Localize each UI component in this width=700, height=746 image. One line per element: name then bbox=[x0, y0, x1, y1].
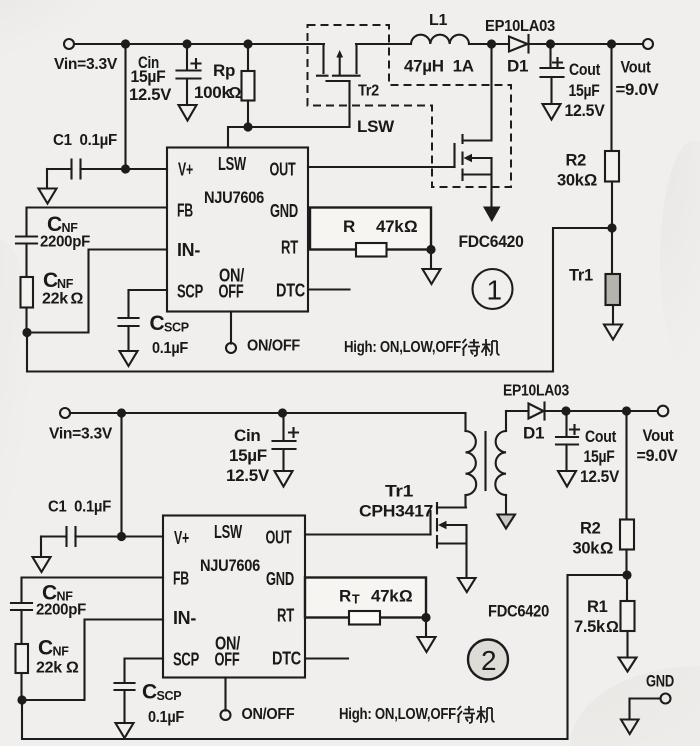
ground below Cin bbox=[179, 105, 197, 121]
svg-text:High: ON,LOW,OFF: High: ON,LOW,OFF bbox=[339, 706, 456, 723]
ground below C1 (bottom) bbox=[33, 557, 51, 572]
ground below R bbox=[423, 250, 441, 285]
svg-text:OUT: OUT bbox=[270, 160, 296, 180]
wire FB pin (bottom) bbox=[22, 578, 164, 603]
resistor Rp bbox=[242, 44, 255, 127]
svg-text:Ω: Ω bbox=[71, 291, 84, 308]
node R2 junction (bottom) bbox=[622, 406, 631, 415]
node junction Vin/V+ bbox=[121, 39, 130, 48]
svg-text:12.5V: 12.5V bbox=[565, 102, 605, 120]
svg-text:EP10LA03: EP10LA03 bbox=[503, 383, 569, 400]
svg-text:Tr1: Tr1 bbox=[569, 267, 593, 285]
ground below Tr1 bbox=[604, 325, 622, 340]
svg-text:ON/OFF: ON/OFF bbox=[242, 706, 295, 723]
svg-text:C: C bbox=[150, 312, 165, 335]
wire SCP pin bbox=[129, 290, 168, 318]
label CNF 2200pF (bottom) bbox=[36, 582, 86, 619]
svg-text:=9.0V: =9.0V bbox=[616, 81, 659, 99]
svg-text:15µF: 15µF bbox=[569, 82, 600, 100]
resistor R1 bbox=[621, 575, 635, 658]
wire ON/OFF pin bbox=[230, 312, 232, 344]
capacitor CNF 2200pF (bottom) bbox=[11, 603, 32, 610]
ground below CSCP bbox=[120, 351, 138, 366]
svg-text:0.1µF: 0.1µF bbox=[152, 340, 188, 357]
wire SCP pin (bottom) bbox=[125, 659, 164, 683]
transistor Tr1 CPH3417 bbox=[431, 503, 467, 578]
transistor Q Tr2 PMOS bbox=[317, 44, 360, 81]
svg-text:22k: 22k bbox=[42, 291, 68, 308]
svg-text:7.5k: 7.5k bbox=[574, 618, 606, 636]
label R1 value bbox=[574, 598, 619, 636]
label Cout value bbox=[565, 61, 605, 120]
svg-text:NJU7606: NJU7606 bbox=[204, 189, 264, 207]
node Cout junction (bottom) bbox=[561, 406, 570, 415]
label R2 (bottom) bbox=[573, 520, 614, 558]
node R2/R1 junction (bottom) bbox=[622, 570, 631, 579]
label CNF 2200pF bbox=[40, 213, 90, 251]
capacitor C1 (bottom) bbox=[41, 527, 163, 557]
svg-text:ON/OFF: ON/OFF bbox=[247, 338, 300, 355]
svg-text:L1: L1 bbox=[429, 12, 447, 29]
wire DTC stub (bottom) bbox=[305, 657, 348, 659]
resistor R2 (bottom) bbox=[620, 411, 634, 575]
svg-text:Rp: Rp bbox=[213, 61, 235, 80]
svg-text:D1: D1 bbox=[523, 424, 544, 443]
capacitor Cin (bottom) bbox=[273, 413, 299, 471]
svg-text:Ω: Ω bbox=[404, 217, 417, 236]
node junction V+ wire (bottom) bbox=[117, 532, 126, 541]
svg-text:Ω: Ω bbox=[606, 619, 619, 636]
terminal Vin (bottom circuit) bbox=[60, 408, 70, 418]
svg-text:R: R bbox=[343, 217, 355, 236]
ground transformer secondary bbox=[498, 515, 516, 529]
svg-text:DTC: DTC bbox=[276, 281, 305, 301]
svg-text:GND: GND bbox=[270, 201, 298, 221]
svg-text:Ω: Ω bbox=[584, 172, 597, 190]
label Cout value (bottom) bbox=[580, 428, 619, 486]
capacitor Cout (bottom) bbox=[556, 411, 579, 471]
label RNF 22k (bottom) bbox=[36, 637, 79, 677]
svg-text:Ω: Ω bbox=[600, 540, 613, 558]
label High ON LOW OFF (top) bbox=[344, 339, 500, 356]
inductor L1 bbox=[411, 35, 469, 44]
svg-text:OUT: OUT bbox=[266, 528, 292, 548]
diode D1 (top) EP10LA03 bbox=[509, 35, 551, 53]
package outline FDC6420 dashed bbox=[308, 25, 512, 187]
svg-text:D1: D1 bbox=[507, 57, 528, 76]
wire V+ drop (bottom) bbox=[120, 413, 122, 537]
capacitor C1 (top) bbox=[47, 160, 167, 189]
svg-text:15µF: 15µF bbox=[584, 448, 615, 466]
svg-text:RT: RT bbox=[277, 606, 294, 626]
svg-text:C: C bbox=[38, 637, 53, 660]
node R2/Tr1 junction bbox=[607, 223, 616, 232]
svg-text:15µF: 15µF bbox=[131, 67, 166, 86]
svg-text:Vout: Vout bbox=[643, 427, 675, 445]
svg-text:FB: FB bbox=[173, 569, 189, 589]
svg-text:OFF: OFF bbox=[219, 282, 244, 302]
node R2 junction top bbox=[607, 39, 616, 48]
wire feedback loop (top) bbox=[27, 228, 612, 372]
svg-text:12.5V: 12.5V bbox=[129, 85, 172, 104]
node junction Rp bbox=[243, 39, 252, 48]
svg-text:IN-: IN- bbox=[177, 240, 200, 260]
svg-text:NF: NF bbox=[57, 277, 74, 291]
wire out rail (bottom) bbox=[566, 410, 658, 412]
svg-text:IN-: IN- bbox=[173, 608, 196, 628]
svg-text:C1 0.1µF: C1 0.1µF bbox=[53, 132, 117, 149]
ground below R1 bbox=[619, 658, 637, 672]
capacitor CSCP (bottom) bbox=[115, 683, 135, 723]
wire IN- pin (bottom) bbox=[22, 620, 163, 701]
label CSCP value (bottom) bbox=[142, 681, 184, 727]
transformer T1 primary bbox=[437, 413, 476, 508]
ground Tr1 source (bottom) bbox=[458, 578, 476, 592]
wire IN- pin bbox=[27, 250, 167, 333]
svg-text:30k: 30k bbox=[573, 540, 601, 558]
wire rail PMOS to L1 bbox=[356, 43, 411, 45]
svg-text:R1: R1 bbox=[587, 598, 608, 616]
resistor R2 (top) bbox=[605, 44, 619, 228]
wire ON/OFF pin (bottom) bbox=[224, 678, 226, 711]
label RNF 22k bbox=[42, 269, 84, 308]
op-amp U2 NJU7606 (bottom IC) bbox=[163, 516, 305, 678]
wire GND terminal bbox=[630, 699, 661, 720]
ground below Cin (bottom) bbox=[275, 471, 293, 487]
svg-text:100k: 100k bbox=[194, 83, 231, 102]
wire feedback loop (bottom) bbox=[22, 575, 627, 739]
transformer T1 secondary bbox=[495, 411, 506, 515]
terminal Vout (bottom) bbox=[658, 406, 669, 417]
svg-text:22k: 22k bbox=[36, 660, 62, 677]
wire LSW net bbox=[228, 81, 350, 148]
svg-text:LSW: LSW bbox=[357, 117, 395, 136]
resistor R 47k box bbox=[310, 208, 431, 257]
svg-text:SCP: SCP bbox=[177, 282, 203, 302]
svg-text:Vin=3.3V: Vin=3.3V bbox=[49, 426, 113, 443]
wire RNF to node (bottom) bbox=[20, 673, 22, 700]
svg-text:CPH3417: CPH3417 bbox=[359, 503, 433, 521]
node junction V+ wire bbox=[121, 164, 130, 173]
terminal GND bbox=[661, 694, 671, 704]
svg-text:Vout: Vout bbox=[621, 59, 652, 77]
capacitor CSCP (top) bbox=[119, 318, 139, 351]
wire DTC stub bbox=[308, 288, 350, 290]
label circled 1 bbox=[473, 269, 513, 309]
svg-text:12.5V: 12.5V bbox=[226, 466, 270, 485]
transformer core bbox=[484, 432, 486, 490]
capacitor Cin (top) bbox=[177, 44, 201, 105]
node junction Cin bbox=[182, 39, 191, 48]
svg-text:GND: GND bbox=[646, 673, 674, 691]
ground below C1 bbox=[39, 189, 57, 204]
resistor RT 47k box bbox=[305, 578, 426, 625]
svg-text:30k: 30k bbox=[557, 172, 585, 190]
svg-text:Cin: Cin bbox=[234, 426, 260, 445]
label Vout bbox=[616, 59, 659, 100]
label Rp value bbox=[194, 61, 242, 102]
wire RNF to node bbox=[25, 308, 27, 333]
svg-text:47µH 1A: 47µH 1A bbox=[404, 57, 474, 76]
node junction V+ (bottom) bbox=[117, 408, 126, 417]
thermistor Tr1 (top) bbox=[606, 228, 621, 325]
capacitor Cout (top) bbox=[541, 44, 564, 104]
wire CNF to RNF bbox=[25, 244, 27, 278]
svg-text:2200pF: 2200pF bbox=[36, 602, 86, 619]
wire CNF to RNF (bottom) bbox=[20, 610, 22, 644]
wire FB pin bbox=[27, 208, 168, 237]
ground below RT (bottom) bbox=[418, 618, 436, 653]
svg-text:2: 2 bbox=[481, 645, 497, 676]
svg-text:NF: NF bbox=[53, 645, 70, 659]
node L1/D1/drain junction bbox=[487, 39, 496, 48]
ground below CSCP (bottom) bbox=[116, 723, 134, 738]
label Cin value bbox=[129, 53, 172, 104]
svg-text:RT: RT bbox=[281, 238, 298, 258]
ground below Cout (bottom) bbox=[558, 471, 576, 487]
svg-text:NJU7606: NJU7606 bbox=[200, 557, 260, 575]
svg-text:Cout: Cout bbox=[569, 61, 601, 79]
svg-text:V+: V+ bbox=[174, 528, 189, 548]
svg-text:C1 0.1µF: C1 0.1µF bbox=[48, 499, 111, 516]
svg-text:T: T bbox=[352, 593, 360, 607]
svg-text:R: R bbox=[339, 587, 351, 606]
wire OUT to gate (bottom) bbox=[305, 533, 431, 535]
node RT junction (bottom) bbox=[421, 613, 430, 622]
transistor Q NMOS of FDC6420 bbox=[308, 44, 492, 207]
wire out rail bbox=[551, 43, 644, 45]
node LSW junction bbox=[243, 122, 252, 131]
svg-text:Ω: Ω bbox=[399, 587, 412, 606]
svg-text:0.1µF: 0.1µF bbox=[148, 709, 184, 726]
svg-text:1: 1 bbox=[487, 275, 503, 306]
node R/RT junction bbox=[426, 245, 435, 254]
svg-text:Ω: Ω bbox=[229, 85, 242, 102]
svg-text:LSW: LSW bbox=[218, 154, 246, 174]
terminal Vout (top) bbox=[643, 39, 653, 49]
terminal ON/OFF (top) bbox=[226, 343, 236, 353]
svg-text:OFF: OFF bbox=[215, 650, 240, 670]
svg-text:LSW: LSW bbox=[214, 522, 242, 542]
capacitor CNF 2200pF bbox=[16, 237, 37, 244]
svg-text:47k: 47k bbox=[371, 587, 399, 606]
svg-text:C: C bbox=[43, 269, 58, 292]
label CSCP value bbox=[150, 312, 189, 357]
svg-text:Tr1: Tr1 bbox=[385, 483, 413, 501]
svg-text:FDC6420: FDC6420 bbox=[488, 602, 549, 621]
svg-text:47k: 47k bbox=[376, 217, 404, 236]
svg-text:SCP: SCP bbox=[164, 321, 189, 335]
label Vout (bottom) bbox=[637, 427, 678, 465]
svg-text:Tr2: Tr2 bbox=[358, 83, 379, 100]
ground below Cout bbox=[543, 104, 561, 120]
label R2 (top) bbox=[557, 152, 597, 190]
svg-text:C: C bbox=[142, 681, 157, 704]
svg-text:2200pF: 2200pF bbox=[40, 234, 90, 251]
wire top input rail bbox=[74, 43, 324, 45]
resistor RNF 22k bbox=[21, 277, 34, 308]
svg-text:High: ON,LOW,OFF: High: ON,LOW,OFF bbox=[344, 339, 461, 356]
node junction Cin (bottom) bbox=[278, 408, 287, 417]
ground below GND terminal bbox=[621, 720, 639, 735]
svg-text:EP10LA03: EP10LA03 bbox=[485, 18, 555, 35]
wire L1 to D1 bbox=[469, 43, 509, 45]
svg-text:V+: V+ bbox=[178, 160, 193, 180]
terminal ON/OFF (bottom) bbox=[221, 710, 231, 720]
svg-text:15µF: 15µF bbox=[229, 446, 267, 465]
label High ON LOW OFF (bottom) bbox=[339, 706, 495, 723]
diode D1 (bottom) EP10LA03 bbox=[506, 403, 566, 420]
node FB network junction bbox=[22, 328, 31, 337]
op-amp U1 NJU7606 (top IC) bbox=[167, 148, 308, 312]
wire bottom input rail bbox=[70, 412, 465, 414]
svg-text:DTC: DTC bbox=[272, 649, 301, 669]
svg-text:FDC6420: FDC6420 bbox=[459, 232, 524, 251]
svg-text:Cout: Cout bbox=[585, 428, 617, 446]
svg-text:=9.0V: =9.0V bbox=[637, 447, 678, 465]
node Cout junction bbox=[546, 39, 555, 48]
svg-text:R2: R2 bbox=[566, 152, 587, 170]
svg-text:R2: R2 bbox=[580, 520, 601, 538]
svg-text:FB: FB bbox=[177, 201, 193, 221]
svg-text:Ω: Ω bbox=[66, 660, 79, 677]
svg-text:SCP: SCP bbox=[157, 689, 182, 703]
svg-text:Vin=3.3V: Vin=3.3V bbox=[54, 56, 118, 73]
svg-text:12.5V: 12.5V bbox=[580, 468, 619, 486]
resistor RNF 22k (bottom) bbox=[16, 644, 29, 673]
label Cin value (bottom) bbox=[226, 426, 270, 485]
node FB network junction (bottom) bbox=[17, 695, 26, 704]
label circled 2 bbox=[468, 640, 508, 680]
svg-text:SCP: SCP bbox=[173, 650, 199, 670]
wire V+ drop bbox=[124, 44, 126, 169]
terminal Vin (top circuit) bbox=[64, 39, 74, 49]
svg-text:GND: GND bbox=[266, 569, 294, 589]
ground NMOS source (filled) bbox=[483, 207, 501, 223]
